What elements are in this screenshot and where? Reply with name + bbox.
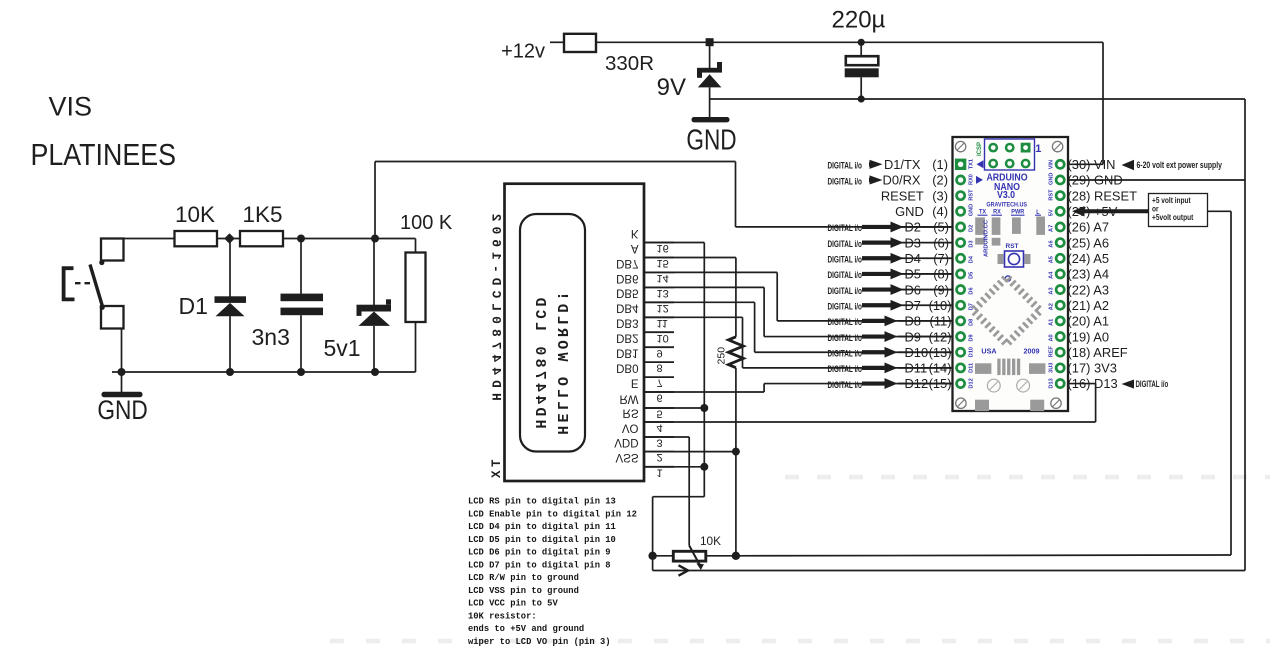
svg-text:HD44780LCD-1602: HD44780LCD-1602 <box>488 209 503 401</box>
svg-text:7: 7 <box>657 377 663 389</box>
LCD pin 14 number (flipped) <box>657 272 669 284</box>
LCD pin 10 stub <box>644 331 674 333</box>
switch S1 dashed link <box>75 282 93 284</box>
svg-text:LCD VSS pin to ground: LCD VSS pin to ground <box>468 586 579 596</box>
svg-text:D4: D4 <box>969 255 975 263</box>
wire DB7(14) to D8 <box>644 271 777 273</box>
LCD pin 9 number (flipped) <box>657 347 663 359</box>
svg-text:D5: D5 <box>969 272 975 279</box>
switch S1 actuator bracket <box>64 268 75 299</box>
wire DB4(11) to D11 <box>644 316 743 318</box>
svg-text:D13: D13 <box>1049 378 1055 388</box>
svg-text:DIGITAL i/o: DIGITAL i/o <box>827 333 862 344</box>
svg-text:TX: TX <box>490 459 504 481</box>
svg-text:A6: A6 <box>1049 240 1055 247</box>
wire rail to arduino D2 <box>375 161 736 163</box>
svg-text:5V: 5V <box>1049 209 1055 216</box>
svg-text:D10: D10 <box>905 345 929 360</box>
svg-text:+5volt output: +5volt output <box>1152 212 1194 222</box>
svg-text:DIGITAL i/o: DIGITAL i/o <box>827 160 862 171</box>
ground bar below 9V <box>692 117 730 122</box>
svg-text:GND: GND <box>969 204 975 216</box>
wire into pad row 15 <box>898 383 957 385</box>
wire R330 to zener junction <box>596 41 707 43</box>
LCD pin 16 label K (flipped) <box>631 227 639 239</box>
LCD pin 1 label VSS (flipped) <box>615 451 638 463</box>
svg-text:15: 15 <box>657 257 669 269</box>
ICSP header <box>985 139 1035 170</box>
svg-text:DB7: DB7 <box>616 257 638 269</box>
wire into pad row 5 <box>898 226 957 228</box>
arrowhead on ground line <box>679 565 689 575</box>
LCD pin 10 label DB3 (flipped) <box>616 317 638 329</box>
LCD corner label TX (rotated+flipped) <box>490 459 504 481</box>
svg-text:10K: 10K <box>175 202 215 227</box>
svg-text:DIGITAL i/o: DIGITAL i/o <box>827 239 862 250</box>
svg-text:(10): (10) <box>929 298 952 313</box>
LCD pin 9 stub <box>644 346 674 348</box>
svg-text:DB5: DB5 <box>616 287 638 299</box>
wire K(16) to ground bus v1 <box>644 242 704 244</box>
ICSP label <box>977 142 983 156</box>
svg-text:DB6: DB6 <box>616 272 638 284</box>
svg-text:(8): (8) <box>933 267 949 282</box>
LCD pin 7 stub <box>644 376 674 378</box>
bottom pads <box>975 400 989 411</box>
svg-text:(12): (12) <box>929 329 952 344</box>
wire into pad row 9 <box>898 289 957 291</box>
LCD pin 4 number (flipped) <box>657 422 663 434</box>
svg-text:(21) A2: (21) A2 <box>1068 298 1110 313</box>
mounting holes <box>955 141 965 151</box>
wire ground bus to pot left end <box>653 496 705 498</box>
svg-text:A3: A3 <box>1049 287 1055 294</box>
svg-text:DB3: DB3 <box>616 317 638 329</box>
svg-text:D8: D8 <box>969 319 975 326</box>
svg-text:3n3: 3n3 <box>252 324 290 350</box>
svg-text:DIGITAL i/o: DIGITAL i/o <box>827 223 862 234</box>
wire VO(3) to pot wiper <box>644 436 689 438</box>
wire VDD(2) to +5V bus <box>644 451 736 453</box>
LCD pin 6 number (flipped) <box>657 392 663 404</box>
wire +5V line from pot right end <box>736 554 1231 557</box>
svg-text:13: 13 <box>657 287 669 299</box>
svg-text:wiper to LCD VO pin (pin 3): wiper to LCD VO pin (pin 3) <box>468 637 611 647</box>
capacitor 3n3 <box>281 239 324 373</box>
blue tx/rx triangles <box>977 160 984 168</box>
svg-text:(30) VIN: (30) VIN <box>1068 157 1116 172</box>
resistor 1K5 <box>240 231 283 246</box>
svg-text:RST: RST <box>1049 189 1055 201</box>
svg-text:GND: GND <box>686 123 736 156</box>
LCD pin 12 number (flipped) <box>657 302 669 314</box>
wire lower rail of input circuit <box>112 371 416 373</box>
board silkscreen text <box>986 172 1027 183</box>
svg-text:D4: D4 <box>905 251 921 266</box>
svg-text:TX1: TX1 <box>969 159 975 169</box>
svg-text:VO: VO <box>622 421 639 433</box>
svg-text:D7: D7 <box>905 298 921 313</box>
LCD pin 5 stub <box>644 407 674 409</box>
svg-text:(16) D13: (16) D13 <box>1068 376 1118 391</box>
node dot at 3n3 <box>297 235 305 243</box>
LCD pin 1 stub <box>644 466 674 468</box>
LCD pin 14 label DB7 (flipped) <box>616 257 638 269</box>
svg-text:D8: D8 <box>905 314 921 329</box>
svg-text:D3: D3 <box>969 240 975 247</box>
wire into pad row 14 <box>898 367 957 369</box>
wire +12v to R330 <box>550 41 564 43</box>
LCD pin 3 label VO (flipped) <box>622 421 639 433</box>
LCD module U2 outline <box>505 184 645 481</box>
svg-text:250: 250 <box>716 347 728 365</box>
svg-text:VIN: VIN <box>1049 160 1055 169</box>
svg-text:A0: A0 <box>1049 334 1055 341</box>
svg-text:3U3: 3U3 <box>1049 363 1055 373</box>
svg-text:D12: D12 <box>969 378 975 388</box>
wire into pad row 7 <box>898 257 957 259</box>
svg-text:VIS: VIS <box>49 92 93 122</box>
svg-text:9V: 9V <box>657 74 686 101</box>
annotation +5 volt box <box>1072 206 1085 216</box>
svg-text:10: 10 <box>657 332 669 344</box>
svg-text:V3.0: V3.0 <box>997 190 1015 201</box>
svg-text:D10: D10 <box>969 347 975 357</box>
LCD pin 13 number (flipped) <box>657 287 669 299</box>
svg-text:D2: D2 <box>905 220 921 235</box>
svg-text:9: 9 <box>657 347 663 359</box>
svg-text:DIGITAL i/o: DIGITAL i/o <box>827 348 862 359</box>
annotation DIGITAL i/o at D13 <box>1122 379 1135 388</box>
wire into pad row 12 <box>898 336 957 338</box>
svg-text:(13): (13) <box>929 345 952 360</box>
node dot between 10K and 1K5 <box>224 233 235 244</box>
svg-text:D6: D6 <box>905 282 921 297</box>
LCD pin 7 label DB0 (flipped) <box>616 362 638 374</box>
zener 5v1 <box>357 239 392 373</box>
svg-text:(1): (1) <box>932 157 948 172</box>
svg-text:(29) GND: (29) GND <box>1068 173 1123 188</box>
LCD pin 6 label E (flipped) <box>631 376 639 388</box>
svg-text:10K: 10K <box>700 534 721 548</box>
resistor 100K <box>406 239 426 373</box>
svg-text:A4: A4 <box>1049 271 1055 279</box>
svg-text:(5): (5) <box>933 220 949 235</box>
svg-text:11: 11 <box>657 317 668 329</box>
LCD pin 3 number (flipped) <box>657 437 663 449</box>
LCD pin 1 number (flipped) <box>657 466 663 478</box>
wire RW(5) to ground bus <box>644 407 704 409</box>
wire into (29) GND pad <box>1057 179 1245 181</box>
svg-text:LCD D7 pin to digital pin 8: LCD D7 pin to digital pin 8 <box>468 560 611 570</box>
svg-text:(20) A1: (20) A1 <box>1068 314 1110 329</box>
LCD pin 12 label DB5 (flipped) <box>616 287 638 299</box>
svg-text:1: 1 <box>1035 143 1041 155</box>
wire RS(4) to D13 <box>644 421 1096 423</box>
svg-text:LCD R/W pin to ground: LCD R/W pin to ground <box>468 573 579 583</box>
LCD pin 4 stub <box>644 421 674 423</box>
LCD pin 15 number (flipped) <box>657 257 669 269</box>
LCD pin 15 stub <box>644 257 674 259</box>
svg-text:DB2: DB2 <box>616 332 638 344</box>
scan artifact dashes (decorative) <box>785 475 1270 480</box>
wire top node line <box>283 238 416 240</box>
svg-text:USA: USA <box>981 346 997 355</box>
svg-text:LCD D5 pin to digital pin 10: LCD D5 pin to digital pin 10 <box>468 535 616 545</box>
svg-text:(19) A0: (19) A0 <box>1068 329 1110 344</box>
LCD pin 9 label DB2 (flipped) <box>616 332 638 344</box>
svg-text:RESET: RESET <box>881 188 924 203</box>
wire 10K to 1K5 <box>217 238 240 240</box>
svg-text:12: 12 <box>657 302 669 314</box>
svg-text:DIGITAL i/o: DIGITAL i/o <box>827 364 862 375</box>
wire into (30) VIN pad <box>1057 163 1103 165</box>
LCD pin 2 label VDD (flipped) <box>614 436 638 448</box>
svg-text:HD44780 LCD: HD44780 LCD <box>531 294 548 428</box>
svg-text:DIGITAL i/o: DIGITAL i/o <box>827 380 862 391</box>
svg-text:VDD: VDD <box>614 436 638 448</box>
LCD pin 11 number (flipped) <box>657 317 668 329</box>
LCD pin 16 number (flipped) <box>657 242 669 254</box>
svg-text:GND: GND <box>1049 173 1055 185</box>
svg-text:330R: 330R <box>605 52 654 75</box>
LCD pin 12 stub <box>644 301 674 303</box>
svg-text:ARDUINO.CC: ARDUINO.CC <box>984 219 990 257</box>
board components gray <box>975 217 985 235</box>
svg-text:(2): (2) <box>932 173 948 188</box>
svg-text:VSS: VSS <box>615 451 638 463</box>
svg-text:(28) RESET: (28) RESET <box>1068 188 1138 203</box>
svg-text:(15): (15) <box>929 376 952 391</box>
LCD pin 3 stub <box>644 436 674 438</box>
tiny pin labels on board <box>969 159 975 169</box>
svg-text:220µ: 220µ <box>832 7 886 34</box>
svg-text:D6: D6 <box>969 287 975 294</box>
svg-text:DB4: DB4 <box>616 302 639 314</box>
svg-text:1: 1 <box>657 466 663 478</box>
LCD pin 7 number (flipped) <box>657 377 663 389</box>
svg-text:10K resistor:: 10K resistor: <box>468 611 537 621</box>
svg-text:16: 16 <box>657 242 669 254</box>
svg-text:A: A <box>631 242 639 254</box>
svg-text:PLATINEES: PLATINEES <box>31 138 176 172</box>
wire into pad row 8 <box>898 273 957 275</box>
wire into pad row 10 <box>898 304 957 306</box>
svg-text:D11: D11 <box>969 363 975 373</box>
svg-text:(25) A6: (25) A6 <box>1068 235 1110 250</box>
svg-text:DB1: DB1 <box>616 347 638 359</box>
svg-text:8: 8 <box>657 362 663 374</box>
LCD pin 8 label DB1 (flipped) <box>616 347 638 359</box>
wire ground bus v1 vertical <box>703 243 705 497</box>
LCD pin 16 stub <box>644 242 674 244</box>
arduino left pin row 2: D0/RX <box>827 176 862 187</box>
svg-text:ICSP: ICSP <box>977 142 983 156</box>
svg-text:(6): (6) <box>933 235 949 250</box>
svg-text:DIGITAL i/o: DIGITAL i/o <box>827 301 862 312</box>
svg-text:D11: D11 <box>905 361 928 376</box>
svg-text:DIGITAL i/o: DIGITAL i/o <box>1136 379 1169 390</box>
LCD pin 11 label DB4 (flipped) <box>616 302 639 314</box>
wire pot bottom ground line <box>653 570 1245 572</box>
LCD pin 5 label RW (flipped) <box>620 392 639 404</box>
resistor 10K <box>175 231 218 246</box>
LCD pin 13 stub <box>644 286 674 288</box>
svg-text:(18) AREF: (18) AREF <box>1068 345 1128 360</box>
svg-text:RW: RW <box>620 392 639 404</box>
svg-text:(3): (3) <box>932 188 948 203</box>
svg-text:5: 5 <box>657 408 663 420</box>
wire E(6) to D12 <box>644 391 764 393</box>
svg-text:DIGITAL i/o: DIGITAL i/o <box>827 176 862 187</box>
svg-text:(11): (11) <box>930 314 952 329</box>
svg-text:HELLO WORLD!: HELLO WORLD! <box>553 288 570 434</box>
svg-text:LCD RS pin to digital pin 13: LCD RS pin to digital pin 13 <box>468 497 616 507</box>
svg-text:3: 3 <box>657 437 663 449</box>
svg-text:LCD D6 pin to digital pin 9: LCD D6 pin to digital pin 9 <box>468 548 611 558</box>
svg-text:LCD VCC pin to 5V: LCD VCC pin to 5V <box>468 599 558 609</box>
pad columns <box>955 159 966 170</box>
switch S1 terminal lower <box>101 306 124 329</box>
svg-text:RS: RS <box>623 406 639 418</box>
wire A(15) to 250R <box>644 257 736 259</box>
svg-text:DIGITAL i/o: DIGITAL i/o <box>827 317 862 328</box>
svg-text:DIGITAL i/o: DIGITAL i/o <box>827 286 862 297</box>
LCD pin 8 stub <box>644 361 674 363</box>
svg-text:D12: D12 <box>905 376 929 391</box>
wire DB5(12) to D10 <box>644 301 755 303</box>
LCD pin 4 label RS (flipped) <box>623 406 639 418</box>
svg-text:RST: RST <box>1006 243 1019 250</box>
svg-text:RX0: RX0 <box>969 174 975 185</box>
junction square at 9V zener <box>706 38 714 46</box>
reset button <box>1005 251 1024 267</box>
arduino nano board U1 <box>953 137 1069 411</box>
zener 9V <box>697 46 722 118</box>
svg-text:D1/TX: D1/TX <box>884 157 921 172</box>
svg-text:D3: D3 <box>905 235 921 250</box>
wire 250R down to +5V bus <box>735 368 737 556</box>
svg-text:(22) A3: (22) A3 <box>1068 282 1110 297</box>
svg-text:LCD Enable pin to digital pin: LCD Enable pin to digital pin 12 <box>468 509 637 519</box>
svg-text:DB0: DB0 <box>616 362 638 374</box>
svg-text:REF: REF <box>1049 345 1055 357</box>
LCD pin 8 number (flipped) <box>657 362 663 374</box>
svg-text:D5: D5 <box>905 267 921 282</box>
wire into pad row 11 <box>898 320 957 322</box>
svg-text:(7): (7) <box>933 251 949 266</box>
label 250 (rotated) <box>716 347 728 365</box>
svg-text:6: 6 <box>657 392 663 404</box>
wire from lower terminal down <box>121 329 123 373</box>
LCD side label HD44780LCD-1602 (rotated+flipped) <box>488 209 503 401</box>
LCD pin 2 number (flipped) <box>657 451 663 463</box>
wire into pad row 6 <box>898 242 957 244</box>
svg-text:D0/RX: D0/RX <box>883 173 921 188</box>
svg-text:E: E <box>631 376 639 388</box>
LCD pin 14 stub <box>644 271 674 273</box>
wire junction to VIN corner <box>710 41 1103 43</box>
svg-text:5v1: 5v1 <box>324 335 361 361</box>
LCD pin 2 stub <box>644 451 674 453</box>
svg-text:2: 2 <box>657 451 663 463</box>
LCD display window <box>520 214 585 452</box>
svg-text:+12v: +12v <box>501 41 545 63</box>
LCD pin 13 label DB6 (flipped) <box>616 272 638 284</box>
svg-text:2009: 2009 <box>1023 346 1039 355</box>
svg-text:(26) A7: (26) A7 <box>1068 220 1110 235</box>
svg-text:100 K: 100 K <box>400 212 453 234</box>
LCD display text HELLO WORLD! / HD44780 LCD (rotated+flipped) <box>531 288 570 434</box>
svg-text:DIGITAL i/o: DIGITAL i/o <box>827 270 862 281</box>
svg-text:(17) 3V3: (17) 3V3 <box>1068 361 1117 376</box>
resistor 330R <box>564 34 596 52</box>
LCD pin 11 stub <box>644 316 674 318</box>
svg-text:A1: A1 <box>1049 319 1055 326</box>
svg-text:(24) A5: (24) A5 <box>1068 251 1110 266</box>
svg-text:(4): (4) <box>932 204 948 219</box>
svg-text:14: 14 <box>657 272 669 284</box>
diode D1 <box>215 239 247 373</box>
svg-text:(23) A4: (23) A4 <box>1068 267 1110 282</box>
LCD pin 5 number (flipped) <box>657 408 663 420</box>
wire VSS(1) to ground bus <box>644 466 704 468</box>
svg-text:D9: D9 <box>969 334 975 341</box>
svg-text:4: 4 <box>657 422 663 434</box>
switch S1 pivot dots <box>99 260 104 265</box>
svg-text:1K5: 1K5 <box>242 202 282 227</box>
svg-text:A5: A5 <box>1049 256 1055 263</box>
svg-text:D9: D9 <box>905 329 921 344</box>
node dot at 5v1 <box>371 235 379 243</box>
wire switch to R 10K <box>122 238 175 240</box>
wire GND riser down right edge <box>1244 99 1246 571</box>
svg-text:(9): (9) <box>933 282 949 297</box>
svg-text:(14): (14) <box>929 361 952 376</box>
wire lower rail from zener anode to GND riser <box>710 98 1245 100</box>
wire node to D2 rail riser <box>374 162 376 239</box>
node dots on lower rail <box>118 368 126 376</box>
switch S1 terminal upper <box>101 239 124 261</box>
resistor 250 zigzag <box>728 337 743 368</box>
wire DB6(13) to D9 <box>644 286 764 288</box>
pot wiper diagonal arrow <box>689 546 700 567</box>
svg-text:GND: GND <box>895 204 924 219</box>
ground symbol left <box>121 372 123 392</box>
svg-text:GND: GND <box>97 395 147 425</box>
wire +5V riser <box>1230 211 1232 555</box>
LCD pin 6 stub <box>644 391 674 393</box>
svg-text:DIGITAL i/o: DIGITAL i/o <box>827 254 862 265</box>
annotation 6-20 volt ext power supply <box>1122 160 1135 170</box>
wire into pad row 13 <box>898 351 957 353</box>
switch S1 lever <box>90 265 103 308</box>
svg-text:D1: D1 <box>179 293 208 319</box>
mcu chip diamond <box>1005 276 1010 281</box>
svg-text:LCD D4 pin to digital pin 11: LCD D4 pin to digital pin 11 <box>468 522 616 532</box>
svg-text:6-20 volt ext power supply: 6-20 volt ext power supply <box>1137 160 1223 170</box>
svg-text:A7: A7 <box>1049 225 1055 232</box>
crystal <box>997 359 1000 376</box>
LCD pin 10 number (flipped) <box>657 332 669 344</box>
LCD pin 15 label A (flipped) <box>631 242 639 254</box>
svg-text:D2: D2 <box>969 225 975 232</box>
svg-text:A2: A2 <box>1049 303 1055 310</box>
svg-text:RST: RST <box>969 189 975 201</box>
wire down to VIN row <box>1102 42 1104 164</box>
svg-text:ends to +5V and ground: ends to +5V and ground <box>468 624 584 634</box>
svg-text:GRAVITECH.US: GRAVITECH.US <box>986 202 1027 208</box>
